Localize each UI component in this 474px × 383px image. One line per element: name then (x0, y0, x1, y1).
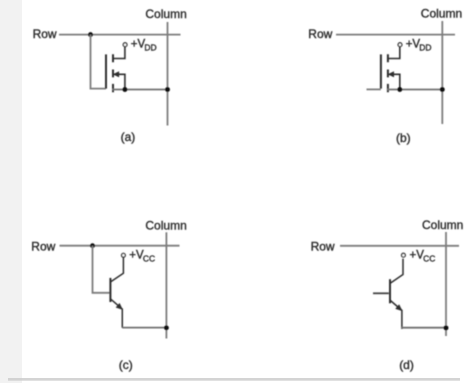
svg-text:CC: CC (423, 253, 435, 263)
wire: open base stub (d) (373, 292, 389, 294)
node: emitter-column junction dot (c) (164, 325, 169, 330)
wire: emitter to Column (d) (402, 327, 447, 329)
power terminal circle +VCC (d) (402, 253, 406, 257)
svg-text:CC: CC (143, 253, 155, 263)
svg-text:DD: DD (144, 42, 156, 52)
svg-text:(a): (a) (121, 130, 136, 144)
svg-text:(d): (d) (399, 358, 414, 372)
transistor Q1: MOSFET (a) (106, 46, 125, 92)
node: row-gate junction dot (a) (88, 32, 93, 37)
svg-text:Row: Row (33, 27, 57, 41)
wire: Column line (b) (441, 21, 443, 124)
node: bulk-source junction dot (b) (397, 87, 402, 92)
node: source-column junction dot (a) (165, 87, 170, 92)
svg-text:Column: Column (422, 218, 463, 232)
svg-text:Column: Column (145, 219, 186, 233)
wire: Column line (c) (165, 232, 167, 338)
wire: Row line (d) (340, 245, 459, 247)
svg-text:Row: Row (31, 240, 55, 254)
svg-text:+V: +V (129, 249, 144, 261)
scan artifact: left gray band (0, 0, 22, 383)
wire: source to Column (b) (387, 89, 442, 91)
power terminal circle +VDD (b) (398, 43, 402, 47)
svg-text:DD: DD (419, 42, 431, 52)
wire: gate connection from Row to Q1 gate (a) (91, 35, 106, 89)
svg-text:Row: Row (311, 240, 335, 254)
transistor Q4: NPN BJT (d) (390, 259, 403, 329)
node: emitter-column junction dot (d) (444, 325, 449, 330)
wire: Row line (b) (336, 34, 455, 36)
wire: Row line (c) (60, 245, 180, 247)
node: row-base junction dot (c) (90, 243, 95, 248)
wire: source to Column (a) (112, 89, 168, 91)
svg-text:(b): (b) (396, 131, 411, 145)
wire: base connection from Row to Q3 base (c) (93, 246, 111, 293)
wire: emitter to Column (c) (122, 327, 166, 329)
wire: Column line (a) (167, 22, 169, 126)
svg-text:+V: +V (410, 249, 425, 261)
transistor Q2: MOSFET (b) (381, 46, 400, 92)
node: source-column junction dot (b) (440, 87, 445, 92)
svg-text:Column: Column (145, 7, 186, 21)
svg-text:+V: +V (406, 38, 421, 50)
power terminal circle +VCC (c) (122, 253, 126, 257)
wire: Column line (d) (445, 232, 447, 336)
svg-text:+V: +V (131, 38, 146, 50)
svg-text:Row: Row (308, 27, 332, 41)
wire: open gate stub (b) (367, 88, 381, 90)
node: bulk-source junction dot (a) (122, 87, 127, 92)
wire: Row line (a) (59, 34, 181, 36)
scan artifact: bottom gray rule (8, 378, 460, 381)
svg-text:Column: Column (421, 7, 462, 21)
svg-text:(c): (c) (119, 358, 133, 372)
power terminal circle +VDD (a) (123, 43, 127, 47)
transistor Q3: NPN BJT (c) (110, 257, 123, 327)
